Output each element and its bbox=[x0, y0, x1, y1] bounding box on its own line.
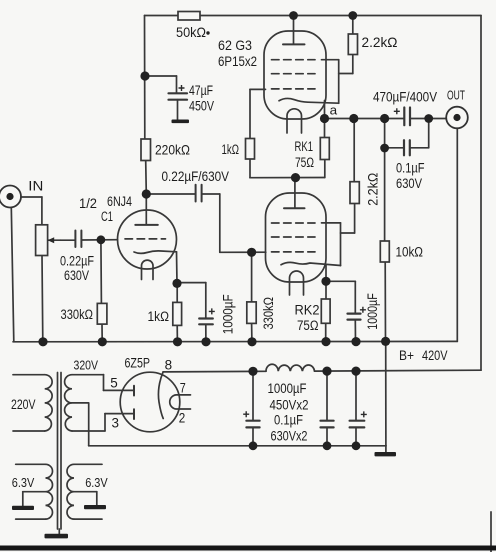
svg-text:470µF/400V: 470µF/400V bbox=[373, 90, 437, 105]
svg-text:1000µF: 1000µF bbox=[221, 294, 236, 334]
svg-text:6P15x2: 6P15x2 bbox=[218, 53, 257, 69]
svg-text:220kΩ: 220kΩ bbox=[155, 142, 190, 158]
svg-text:8: 8 bbox=[165, 358, 173, 373]
svg-text:IN: IN bbox=[28, 179, 43, 194]
svg-text:320V: 320V bbox=[74, 358, 99, 373]
svg-text:1kΩ: 1kΩ bbox=[148, 309, 170, 324]
svg-text:630V: 630V bbox=[64, 268, 89, 283]
svg-text:0.22µF/630V: 0.22µF/630V bbox=[162, 169, 230, 184]
svg-text:450V: 450V bbox=[189, 99, 214, 114]
svg-text:1000µF: 1000µF bbox=[365, 293, 380, 330]
svg-text:RK2: RK2 bbox=[295, 303, 320, 318]
svg-text:5: 5 bbox=[110, 376, 118, 391]
svg-text:C1: C1 bbox=[101, 209, 113, 224]
svg-text:OUT: OUT bbox=[447, 88, 465, 103]
svg-text:50kΩ: 50kΩ bbox=[176, 24, 206, 40]
svg-text:1000µF: 1000µF bbox=[268, 381, 307, 396]
svg-text:2: 2 bbox=[179, 411, 186, 426]
svg-text:75Ω: 75Ω bbox=[297, 318, 319, 333]
svg-text:630V: 630V bbox=[396, 176, 422, 191]
svg-text:450Vx2: 450Vx2 bbox=[270, 398, 309, 413]
svg-text:630Vx2: 630Vx2 bbox=[271, 429, 308, 444]
svg-text:3: 3 bbox=[112, 416, 120, 431]
svg-text:2.2kΩ: 2.2kΩ bbox=[362, 34, 398, 50]
svg-text:B+: B+ bbox=[399, 348, 414, 363]
svg-text:7: 7 bbox=[180, 381, 186, 396]
svg-text:62 G3: 62 G3 bbox=[218, 37, 252, 53]
svg-text:0.1µF: 0.1µF bbox=[274, 413, 303, 428]
svg-text:0.1µF: 0.1µF bbox=[396, 161, 425, 176]
svg-text:RK1: RK1 bbox=[295, 139, 314, 154]
svg-text:47µF: 47µF bbox=[189, 83, 213, 98]
svg-text:10kΩ: 10kΩ bbox=[396, 245, 424, 260]
svg-text:6.3V: 6.3V bbox=[12, 475, 35, 490]
svg-text:6.3V: 6.3V bbox=[85, 475, 108, 490]
svg-text:220V: 220V bbox=[11, 397, 36, 412]
svg-text:0.22µF: 0.22µF bbox=[60, 254, 94, 269]
svg-text:330kΩ: 330kΩ bbox=[61, 307, 94, 322]
svg-text:330kΩ: 330kΩ bbox=[261, 297, 276, 330]
svg-text:2.2kΩ: 2.2kΩ bbox=[365, 173, 381, 206]
svg-text:1kΩ: 1kΩ bbox=[222, 142, 240, 157]
svg-text:6Z5P: 6Z5P bbox=[125, 356, 151, 371]
svg-text:420V: 420V bbox=[422, 348, 448, 363]
svg-text:6NJ4: 6NJ4 bbox=[107, 194, 132, 209]
svg-text:a: a bbox=[330, 103, 338, 118]
svg-text:1/2: 1/2 bbox=[79, 196, 97, 211]
svg-text:75Ω: 75Ω bbox=[295, 155, 314, 170]
